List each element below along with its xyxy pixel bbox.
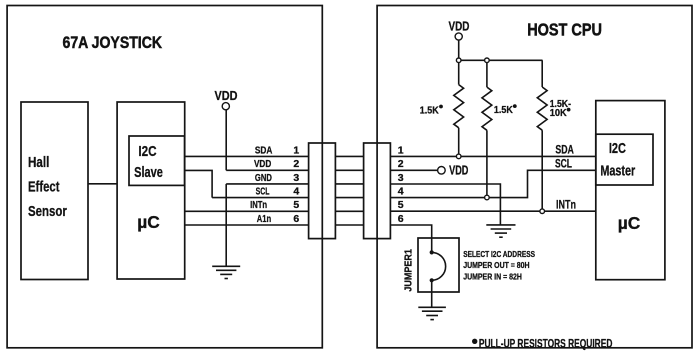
svg-text:Effect: Effect xyxy=(28,180,60,196)
wire SCL stub from I2C slave xyxy=(185,170,213,197)
svg-text:HOST CPU: HOST CPU xyxy=(527,20,602,40)
svg-text:Hall: Hall xyxy=(28,155,49,171)
jumper top pin dot xyxy=(430,250,434,254)
wire A1n pin6 (left) xyxy=(185,224,309,226)
svg-text:GND: GND xyxy=(255,172,272,184)
svg-text:SELECT I2C ADDRESS: SELECT I2C ADDRESS xyxy=(463,249,535,259)
ground (jumper) xyxy=(418,307,446,319)
svg-text:A1n: A1n xyxy=(257,213,271,225)
svg-text:4: 4 xyxy=(293,186,299,198)
wire INTn pin5 (host) xyxy=(390,210,595,212)
wire VDD pin2 (left) xyxy=(226,169,308,171)
VDD terminal circle (host pin2) xyxy=(438,167,446,175)
svg-text:JUMPER1: JUMPER1 xyxy=(402,249,414,292)
junction R1 to SDA xyxy=(456,154,461,159)
svg-text:VDD: VDD xyxy=(449,19,470,34)
resistor value label R1 xyxy=(420,98,572,119)
jumper note text xyxy=(463,249,535,281)
svg-text:SCL: SCL xyxy=(256,186,270,198)
junction on VDD bus at R1 xyxy=(456,58,461,63)
svg-text:2: 2 xyxy=(398,158,404,170)
svg-text:1: 1 xyxy=(398,144,404,156)
svg-text:6: 6 xyxy=(293,213,299,225)
wire jumper to ground xyxy=(431,280,433,307)
svg-text:4: 4 xyxy=(398,186,404,198)
pin labels (joystick side) xyxy=(250,144,273,225)
Hall Effect Sensor box xyxy=(21,102,88,280)
cable wires between connectors xyxy=(335,156,363,225)
svg-text:Slave: Slave xyxy=(134,165,163,181)
wire VDD stub down to pin2 line xyxy=(225,110,227,171)
wire SDA pin1 (host) xyxy=(390,155,595,157)
resistor R3 1.5K-10K xyxy=(541,60,543,87)
wire A1n pin6 to jumper xyxy=(390,225,431,252)
wire GND pin3 (left) xyxy=(226,183,308,185)
wire Hall sensor to uC xyxy=(88,183,117,185)
jumper JUMPER1 box xyxy=(418,238,459,292)
junction R2 to SCL xyxy=(485,195,490,200)
svg-text:2: 2 xyxy=(293,158,299,170)
wire SDA pin1 (left) xyxy=(185,155,309,157)
svg-text:µC: µC xyxy=(618,213,641,233)
svg-text:Sensor: Sensor xyxy=(28,204,67,220)
svg-text:1.5K: 1.5K xyxy=(494,104,513,116)
ground (host) xyxy=(486,225,515,237)
pin numbers 1-6 (host side) xyxy=(398,144,404,225)
microcontroller uC box (host) xyxy=(596,101,665,280)
svg-text:SDA: SDA xyxy=(255,144,273,156)
resistor R1 1.5K xyxy=(458,60,460,84)
wire GND pin3 (host) xyxy=(390,184,500,225)
junction R3 to INTn xyxy=(540,209,545,214)
wire INTn pin5 (left) xyxy=(185,210,309,212)
svg-text:INTn: INTn xyxy=(250,199,267,211)
svg-text:SCL: SCL xyxy=(555,156,572,170)
svg-text:SDA: SDA xyxy=(555,143,574,157)
svg-text:Master: Master xyxy=(600,164,635,180)
microcontroller uC box (joystick) xyxy=(117,102,185,279)
svg-text:5: 5 xyxy=(293,199,299,211)
svg-text:VDD: VDD xyxy=(449,163,468,178)
wire GND down to ground (joystick) xyxy=(225,184,227,266)
67A JOYSTICK outer box xyxy=(7,6,322,348)
svg-text:3: 3 xyxy=(293,172,299,184)
svg-text:PULL-UP RESISTORS REQUIRED: PULL-UP RESISTORS REQUIRED xyxy=(479,336,613,350)
svg-text:5: 5 xyxy=(398,199,404,211)
svg-text:INTn: INTn xyxy=(556,198,576,212)
svg-text:1.5K: 1.5K xyxy=(420,104,439,116)
connector J1 (left) xyxy=(309,143,336,239)
svg-text:3: 3 xyxy=(398,172,404,184)
svg-text:1: 1 xyxy=(293,144,299,156)
svg-text:I2C: I2C xyxy=(609,141,626,157)
wire SCL pin4 (host) xyxy=(390,170,595,197)
svg-text:67A JOYSTICK: 67A JOYSTICK xyxy=(63,33,163,52)
jumper arc xyxy=(432,252,446,280)
connector J2 (right) xyxy=(364,143,391,239)
pin numbers 1-6 (joystick side) xyxy=(293,144,299,225)
jumper bottom pin dot xyxy=(430,278,434,282)
resistor R2 1.5K xyxy=(486,60,488,87)
svg-text:6: 6 xyxy=(398,213,404,225)
junction on VDD bus at R2 xyxy=(485,58,490,63)
svg-text:VDD: VDD xyxy=(215,88,238,103)
svg-text:10K: 10K xyxy=(550,107,567,119)
svg-text:JUMPER OUT = 80H: JUMPER OUT = 80H xyxy=(463,260,529,270)
ground (joystick) xyxy=(212,266,240,278)
svg-text:VDD: VDD xyxy=(254,158,272,170)
footnote bullet xyxy=(472,339,477,344)
wire SCL pin4 (left) xyxy=(212,197,309,199)
wire VDD bus xyxy=(458,40,460,60)
HOST CPU outer box xyxy=(377,6,692,348)
I2C Slave box U1 xyxy=(129,136,185,185)
I2C Master box xyxy=(596,134,653,185)
svg-text:µC: µC xyxy=(137,212,160,232)
wire VDD pin2 (host) xyxy=(390,169,437,171)
svg-text:I2C: I2C xyxy=(138,144,156,160)
svg-text:JUMPER IN = 82H: JUMPER IN = 82H xyxy=(463,271,522,281)
